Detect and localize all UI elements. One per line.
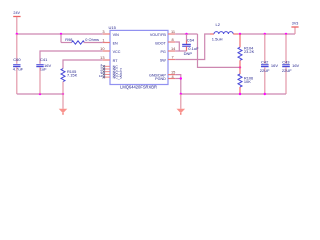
- pin NC x5 with no-connect marks: [105, 66, 110, 77]
- svg-text:BOOT: BOOT: [155, 42, 166, 46]
- svg-text:16V: 16V: [271, 63, 278, 68]
- capacitor C60: [13, 64, 20, 66]
- wire C60 to ground rail: [16, 67, 18, 94]
- node junction dot EN branch: [60, 33, 62, 35]
- wire EN branch horizontal: [61, 42, 72, 44]
- wire VOUT/FB to feedback: [175, 33, 197, 35]
- svg-text:1uF: 1uF: [40, 67, 47, 72]
- capacitor C42: [264, 34, 266, 64]
- capacitor C43: [285, 34, 287, 64]
- power symbol 3V3 bar: [291, 26, 298, 28]
- ground symbol left: [62, 94, 64, 109]
- svg-text:22UF: 22UF: [260, 68, 270, 73]
- resistor R98 0 Ohms: [72, 41, 85, 44]
- wire 3V3 output rail: [238, 33, 295, 35]
- svg-text:RT: RT: [113, 59, 119, 63]
- node junction dot C41 bottom: [39, 93, 41, 95]
- wire C60 column: [16, 34, 18, 64]
- capacitor C64 DNP: [186, 34, 188, 41]
- svg-text:VOUT/FB: VOUT/FB: [150, 33, 167, 37]
- node junction dot R104 top: [239, 33, 241, 35]
- wire FB vertical: [198, 34, 241, 67]
- resistor R105: [61, 69, 65, 82]
- node junction dot C42 top: [264, 33, 266, 35]
- node junction dot R106 bottom: [239, 93, 241, 95]
- svg-text:8: 8: [172, 37, 174, 42]
- svg-text:SW: SW: [160, 59, 166, 63]
- svg-text:R98: R98: [65, 37, 72, 42]
- svg-text:C64: C64: [187, 38, 195, 43]
- wire R98 to EN pin: [84, 42, 103, 44]
- svg-text:1: 1: [102, 38, 104, 43]
- svg-text:13: 13: [100, 55, 104, 60]
- svg-text:L2: L2: [216, 22, 221, 27]
- svg-text:4.7uF: 4.7uF: [13, 67, 24, 72]
- svg-text:3: 3: [102, 29, 104, 34]
- svg-text:C42: C42: [261, 59, 269, 64]
- node junction dot ground left: [62, 93, 64, 95]
- wire SW to inductor: [175, 34, 210, 60]
- ground symbol right: [180, 94, 182, 109]
- wire VIN rail: [17, 33, 103, 35]
- svg-text:VIN: VIN: [113, 33, 119, 37]
- wire EN branch vertical: [60, 34, 62, 43]
- svg-text:C43: C43: [282, 59, 290, 64]
- node junction dot ground right: [180, 93, 182, 95]
- wire R105 to ground rail: [62, 82, 64, 94]
- svg-text:0 Ohms: 0 Ohms: [85, 37, 99, 42]
- pin 11 VOUT/FB: [168, 33, 175, 35]
- svg-text:1.5uH: 1.5uH: [212, 37, 223, 42]
- svg-text:DNP: DNP: [184, 51, 193, 56]
- wire bottom-left ground rail: [17, 93, 63, 95]
- svg-text:24V: 24V: [13, 11, 20, 15]
- svg-text:NC_5: NC_5: [113, 76, 122, 80]
- svg-text:7: 7: [172, 55, 174, 60]
- pin 4 PGND: [168, 78, 175, 80]
- op-amp U15 regulator body: [110, 30, 168, 84]
- node junction dot 24V/VIN: [16, 33, 18, 35]
- pin 14 PG: [168, 50, 175, 52]
- svg-text:10: 10: [100, 46, 105, 51]
- pin 1 EN: [103, 42, 110, 44]
- node junction dot FB divider: [239, 66, 241, 68]
- svg-text:14: 14: [171, 46, 176, 51]
- wire GND/DAP + PGND to ground: [175, 75, 181, 94]
- node junction dot C43 top: [285, 33, 287, 35]
- inductor L2 1.5uH: [210, 33, 214, 35]
- wire BOOT to C64 bottom: [175, 42, 186, 51]
- pin 8 BOOT: [168, 41, 175, 43]
- svg-text:LMQ64420FSRXBR: LMQ64420FSRXBR: [120, 85, 157, 90]
- wire bottom-right ground rail: [181, 93, 286, 95]
- wire C41 to ground rail: [39, 67, 41, 94]
- capacitor C41: [36, 64, 43, 66]
- svg-text:PG: PG: [160, 50, 165, 54]
- power symbol 24V bar: [13, 16, 20, 18]
- svg-text:16V: 16V: [292, 63, 299, 68]
- svg-text:12: 12: [99, 74, 103, 78]
- svg-text:23.2K: 23.2K: [244, 49, 255, 54]
- svg-text:VCC: VCC: [113, 50, 121, 54]
- pin 7 SW: [168, 59, 175, 61]
- svg-text:10K: 10K: [244, 79, 251, 84]
- svg-text:C41: C41: [40, 57, 48, 62]
- svg-text:C60: C60: [13, 57, 21, 62]
- svg-text:3V3: 3V3: [292, 22, 299, 26]
- wire PG stub join: [175, 50, 179, 52]
- pin 3 VIN: [103, 33, 110, 35]
- wire 24V stem: [16, 17, 18, 34]
- svg-text:PGND: PGND: [155, 77, 166, 81]
- svg-text:EN: EN: [113, 42, 118, 46]
- resistor R106: [239, 67, 241, 74]
- node junction dot C64 top: [185, 33, 187, 35]
- pin 13 RT: [103, 59, 110, 61]
- pin 10 VCC: [103, 50, 110, 52]
- svg-text:22UF: 22UF: [282, 68, 292, 73]
- svg-text:11: 11: [171, 29, 175, 34]
- svg-text:7.15K: 7.15K: [67, 73, 78, 78]
- node junction dot PGND: [180, 77, 182, 79]
- wire VCC to C41: [40, 51, 103, 64]
- pin 15 GND/DAP: [168, 74, 175, 76]
- resistor R104: [239, 34, 241, 47]
- svg-text:U15: U15: [109, 25, 117, 30]
- wire RT to R105: [63, 60, 103, 69]
- node junction dot C42 bottom: [264, 93, 266, 95]
